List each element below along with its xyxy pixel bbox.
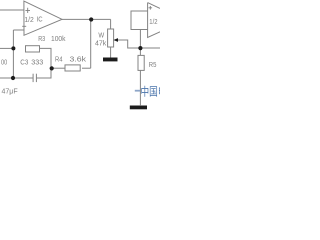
svg-text:R5: R5 — [149, 62, 157, 69]
wire C3 left rail — [0, 77, 33, 79]
svg-text:333: 333 — [31, 59, 43, 66]
wire riser to inputs IC2 — [131, 11, 148, 48]
wire inv input IC2 — [140, 29, 147, 31]
wire node A riser — [12, 30, 14, 78]
watermark dash — [135, 90, 140, 92]
wire W bottom stub — [110, 47, 112, 60]
svg-text:R3: R3 — [38, 36, 45, 43]
op-amp U1 triangle — [24, 1, 62, 35]
wire wiper node to right edge — [140, 47, 160, 49]
svg-text:1/2: 1/2 — [149, 17, 157, 26]
wire R3 right — [40, 48, 52, 68]
wire to W pot top — [110, 19, 112, 29]
node dot wiper — [138, 46, 142, 50]
svg-text:1/2: 1/2 — [24, 17, 33, 24]
svg-text:IC: IC — [37, 16, 43, 23]
resistor R3 — [26, 46, 40, 52]
resistor R4 — [65, 65, 80, 71]
wire R5 top — [139, 48, 141, 55]
wire inv input IC1 — [13, 29, 24, 31]
wire R4 right — [82, 67, 91, 69]
ground bar R5 — [130, 106, 147, 110]
wiper arrow head — [113, 38, 118, 42]
svg-text:3.6k: 3.6k — [70, 57, 87, 64]
svg-text:00: 00 — [1, 59, 7, 66]
wire output riser down — [90, 19, 92, 68]
svg-text:R4: R4 — [55, 57, 63, 64]
node dot output — [89, 17, 93, 21]
op-amp U2 triangle (clipped at right edge) — [148, 3, 160, 38]
label + IC1 (drawn) — [25, 8, 30, 13]
ground bar W — [103, 58, 118, 62]
label - IC1 (drawn) — [22, 25, 26, 27]
wire left feedback — [0, 47, 13, 49]
label + IC2 (drawn) — [149, 6, 153, 10]
svg-text:47μF: 47μF — [2, 89, 18, 96]
wire R5 bottom — [139, 70, 141, 105]
node dot C3 rail — [11, 76, 15, 80]
background — [0, 0, 160, 110]
wire noninv input IC1 — [0, 9, 24, 11]
wire output IC1 — [62, 18, 111, 20]
svg-text:W: W — [98, 33, 104, 40]
node dot inv input — [11, 46, 15, 50]
capacitor C3 — [35, 74, 37, 82]
svg-text:C3: C3 — [20, 59, 28, 66]
svg-text:47k: 47k — [95, 40, 107, 47]
wire C3 jog — [36, 68, 51, 78]
svg-text:100k: 100k — [51, 36, 66, 43]
node dot R4 junction — [50, 66, 54, 70]
potentiometer W body — [108, 29, 114, 47]
resistor R5 — [138, 55, 144, 70]
svg-text:中国电: 中国电 — [141, 86, 161, 99]
wire R4 rail left — [51, 67, 66, 69]
wire wiper — [118, 40, 141, 48]
